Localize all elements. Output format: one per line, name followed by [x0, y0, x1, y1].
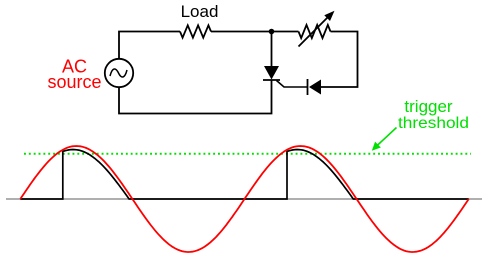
node junction dot	[269, 29, 275, 35]
wire junction down to SCR anode	[271, 32, 273, 67]
AC source sine glyph	[110, 69, 127, 77]
diode D1 triangle	[309, 80, 321, 95]
svg-text:source: source	[47, 72, 101, 92]
svg-text:trigger: trigger	[404, 97, 453, 116]
load voltage waveform black	[20, 150, 468, 200]
SCR Q1 cathode bar	[263, 79, 280, 81]
SCR Q1 triangle	[264, 66, 279, 80]
wire from variable resistor right and down	[321, 32, 358, 88]
variable resistor arrow	[299, 16, 330, 47]
trigger threshold dotted line	[24, 153, 471, 155]
svg-text:Load: Load	[181, 2, 219, 21]
resistor Load zigzag	[180, 25, 211, 37]
trigger threshold arrow	[375, 128, 397, 149]
diode D1 cathode bar	[307, 79, 309, 95]
source sine wave red	[20, 146, 468, 252]
resistor R variable zigzag	[299, 25, 331, 38]
wire from load resistor to junction and on to variable resistor	[211, 31, 299, 33]
wire top-left loop: left vertical + top segment to load resistor	[119, 32, 180, 59]
AC source U1 circle	[105, 59, 133, 87]
wire SCR cathode down + bottom wire + left vertical to source	[119, 80, 272, 114]
wire diode to SCR gate	[277, 81, 308, 88]
axis gray line	[6, 198, 482, 200]
svg-text:threshold: threshold	[398, 115, 469, 132]
